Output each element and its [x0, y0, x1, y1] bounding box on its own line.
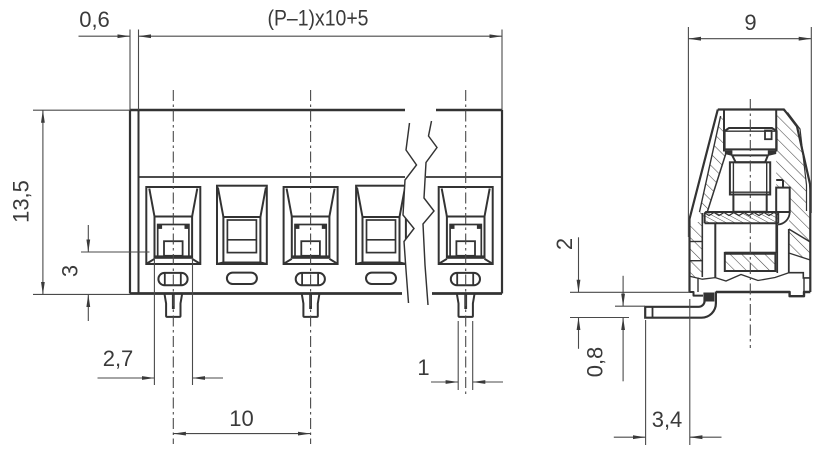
svg-text:2: 2	[552, 238, 577, 250]
svg-text:1: 1	[417, 355, 429, 380]
svg-text:2,7: 2,7	[103, 346, 134, 371]
svg-text:0,6: 0,6	[79, 7, 110, 32]
svg-text:3: 3	[57, 265, 82, 277]
svg-text:0,8: 0,8	[582, 347, 607, 378]
svg-text:(P–1)x10+5: (P–1)x10+5	[268, 6, 369, 31]
svg-text:9: 9	[744, 10, 756, 35]
svg-text:13,5: 13,5	[8, 180, 33, 223]
svg-text:3,4: 3,4	[652, 407, 683, 432]
svg-text:10: 10	[229, 406, 253, 431]
